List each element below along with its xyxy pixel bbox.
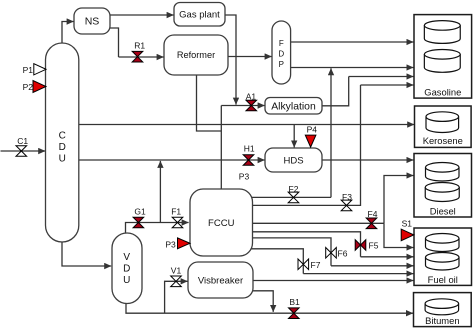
svg-text:Kerosene: Kerosene [423, 135, 463, 146]
svg-text:P3: P3 [239, 172, 250, 182]
svg-text:V1: V1 [171, 266, 182, 276]
svg-text:H1: H1 [244, 144, 255, 154]
svg-text:R1: R1 [134, 41, 145, 51]
svg-text:F6: F6 [338, 248, 348, 258]
svg-text:Reformer: Reformer [177, 50, 215, 60]
svg-text:P2: P2 [23, 82, 34, 92]
svg-text:P: P [279, 60, 284, 69]
svg-text:F3: F3 [342, 192, 352, 202]
svg-text:P4: P4 [307, 125, 318, 135]
svg-text:F7: F7 [311, 260, 321, 270]
svg-text:D: D [59, 142, 66, 153]
svg-text:F5: F5 [369, 241, 379, 251]
svg-text:G1: G1 [134, 206, 146, 216]
svg-text:HDS: HDS [283, 155, 303, 166]
svg-text:A1: A1 [246, 91, 257, 101]
svg-text:F2: F2 [289, 184, 299, 194]
svg-text:S1: S1 [402, 219, 413, 229]
svg-text:F: F [279, 39, 284, 48]
svg-text:B1: B1 [289, 297, 300, 307]
svg-text:Gas plant: Gas plant [179, 10, 220, 21]
svg-text:D: D [278, 50, 284, 59]
svg-text:Alkylation: Alkylation [271, 101, 316, 112]
svg-text:Visbreaker: Visbreaker [198, 275, 243, 286]
svg-text:C: C [59, 131, 66, 142]
svg-text:FCCU: FCCU [208, 218, 235, 229]
svg-text:P3: P3 [165, 240, 176, 250]
svg-text:D: D [123, 264, 130, 275]
svg-text:Bitumen: Bitumen [425, 315, 459, 326]
svg-text:U: U [59, 154, 66, 165]
svg-text:Gasoline: Gasoline [424, 87, 461, 98]
svg-text:Fuel oil: Fuel oil [428, 274, 458, 285]
svg-text:NS: NS [85, 16, 100, 28]
svg-text:F1: F1 [171, 206, 181, 216]
svg-text:V: V [123, 252, 130, 263]
svg-text:C1: C1 [17, 136, 28, 146]
svg-text:P1: P1 [23, 65, 34, 75]
svg-text:F4: F4 [368, 209, 378, 219]
svg-text:U: U [123, 275, 130, 286]
svg-text:Diesel: Diesel [430, 206, 456, 217]
